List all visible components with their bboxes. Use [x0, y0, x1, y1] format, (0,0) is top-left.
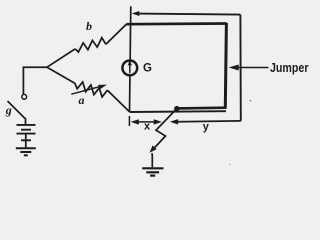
wire battery to ground [25, 134, 27, 148]
switch contact circle [22, 94, 27, 99]
svg-text:Jumper: Jumper [270, 61, 309, 75]
cable top thick wire [126, 22, 226, 25]
outer loop top wire with left arrow [138, 14, 241, 15]
galvanometer needle arrow [129, 64, 131, 73]
ground (fault) [142, 168, 163, 175]
slide wire bottom [130, 110, 227, 113]
node fault point dot [174, 106, 179, 111]
battery B1 [17, 125, 36, 140]
svg-text:G: G [143, 63, 152, 75]
wire resistor b to cable top corner [106, 24, 126, 44]
wire switch to battery [25, 118, 27, 125]
wire left horizontal from battery branch to bridge node [23, 66, 48, 68]
wire left vertical down to switch contact [22, 66, 24, 94]
jumper thick vertical [225, 23, 226, 108]
scan speck [229, 164, 230, 165]
wire node to resistor b [47, 49, 75, 67]
outer loop right vertical [239, 15, 241, 121]
ground (battery) [16, 148, 36, 155]
svg-text:b: b [86, 19, 92, 33]
switch g blade [8, 101, 26, 119]
wire resistor a to slide wire corner [107, 90, 129, 112]
svg-text:y: y [203, 121, 210, 133]
dimension x tick [128, 116, 130, 126]
cable bottom thick wire [177, 106, 227, 109]
dimension y arrow [178, 120, 241, 123]
resistor b [75, 38, 106, 52]
galvanometer U1 circle [122, 61, 137, 76]
svg-text:a: a [79, 93, 85, 107]
wire vertical galvanometer branch [130, 6, 131, 112]
jumper pointer arrow [238, 67, 269, 69]
wire fault to ground [151, 153, 154, 167]
svg-text:g: g [5, 103, 12, 117]
dimension x arrows [138, 121, 154, 123]
fault slider diagonal [152, 109, 177, 151]
resistor a (variable) [75, 82, 108, 97]
wire node to resistor a [47, 67, 75, 83]
svg-text:x: x [144, 121, 151, 133]
scan speck [250, 100, 252, 102]
arrow through resistor a [71, 87, 99, 95]
fault arrowhead [150, 145, 157, 152]
